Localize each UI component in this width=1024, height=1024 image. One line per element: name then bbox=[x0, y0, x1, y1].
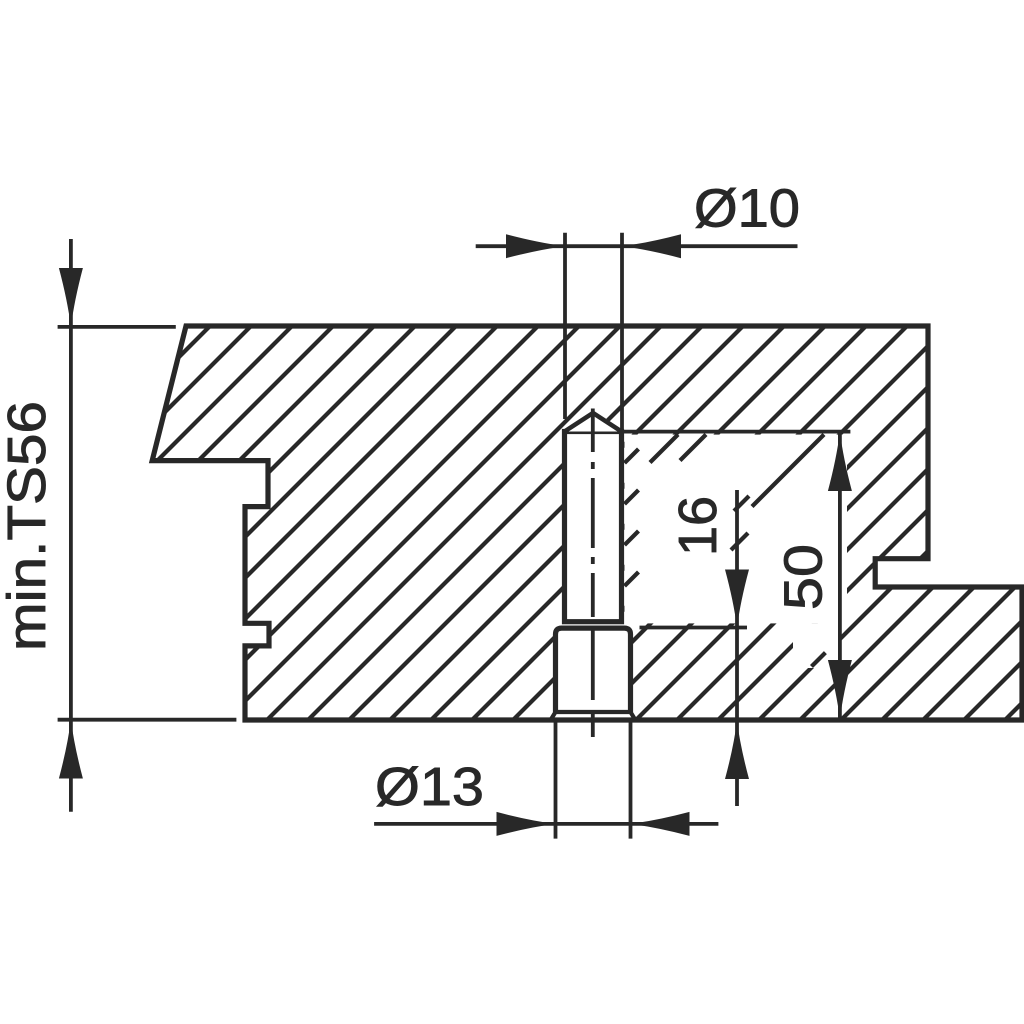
bolt collar sleeve bbox=[556, 628, 631, 712]
hatching of section body bbox=[0, 300, 1024, 730]
svg-text:50: 50 bbox=[774, 544, 834, 610]
svg-text:min.TS56: min.TS56 bbox=[0, 401, 57, 651]
white knockout for dimension text bbox=[625, 435, 848, 624]
16 dimension line bbox=[735, 490, 739, 806]
dia13 extension lines bbox=[554, 721, 558, 839]
dia13 arrows bbox=[497, 812, 556, 836]
bolt tip roof bbox=[565, 413, 622, 432]
min.TS56 extension lines bbox=[58, 325, 176, 329]
50 dim extension line (pin shoulder) bbox=[565, 430, 851, 434]
hatch stubs bbox=[625, 435, 826, 667]
50 dimension line bbox=[838, 433, 842, 718]
collar flare rim bbox=[551, 712, 636, 720]
section body outline bbox=[152, 326, 1022, 720]
svg-text:Ø10: Ø10 bbox=[694, 178, 800, 238]
16 dim extension line bbox=[640, 626, 748, 630]
min.TS56 arrows bbox=[59, 268, 83, 327]
50 arrows (inside) bbox=[828, 432, 852, 491]
dia10 extension lines bbox=[563, 233, 567, 419]
dia10 dimension line bbox=[476, 244, 798, 248]
svg-text:Ø13: Ø13 bbox=[375, 757, 484, 817]
centerline dash-dot bbox=[591, 409, 595, 738]
bolt pin body bbox=[565, 432, 622, 622]
svg-text:16: 16 bbox=[668, 496, 728, 556]
16 arrows (outside) bbox=[725, 570, 749, 628]
min.TS56 dimension line bbox=[69, 239, 73, 812]
dia10 arrows bbox=[506, 234, 565, 258]
dia13 dimension line bbox=[374, 822, 718, 826]
